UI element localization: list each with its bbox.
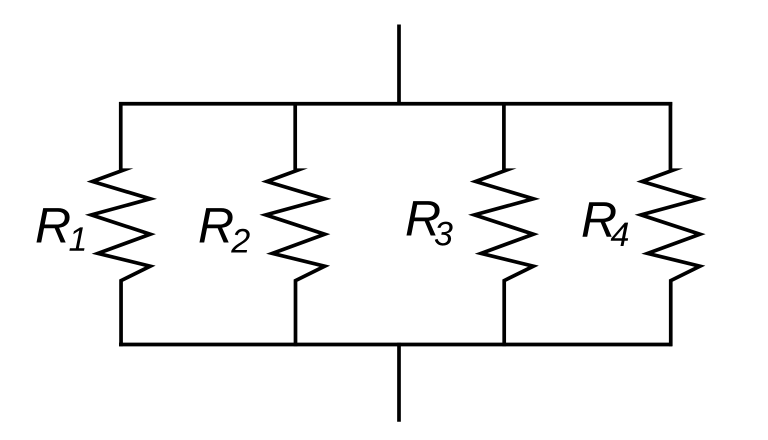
resistor R4 [641,102,700,346]
wire top rail [119,102,672,106]
resistor R3 [475,102,534,346]
label R1 [37,208,70,242]
label R4 [583,202,616,236]
wire bottom rail [119,343,672,347]
wire top feed [397,25,401,106]
resistor R2 [266,102,325,346]
label R3 [407,201,440,235]
wire bottom feed [397,343,401,422]
resistor R1 [91,102,150,346]
label R2 [200,208,233,242]
